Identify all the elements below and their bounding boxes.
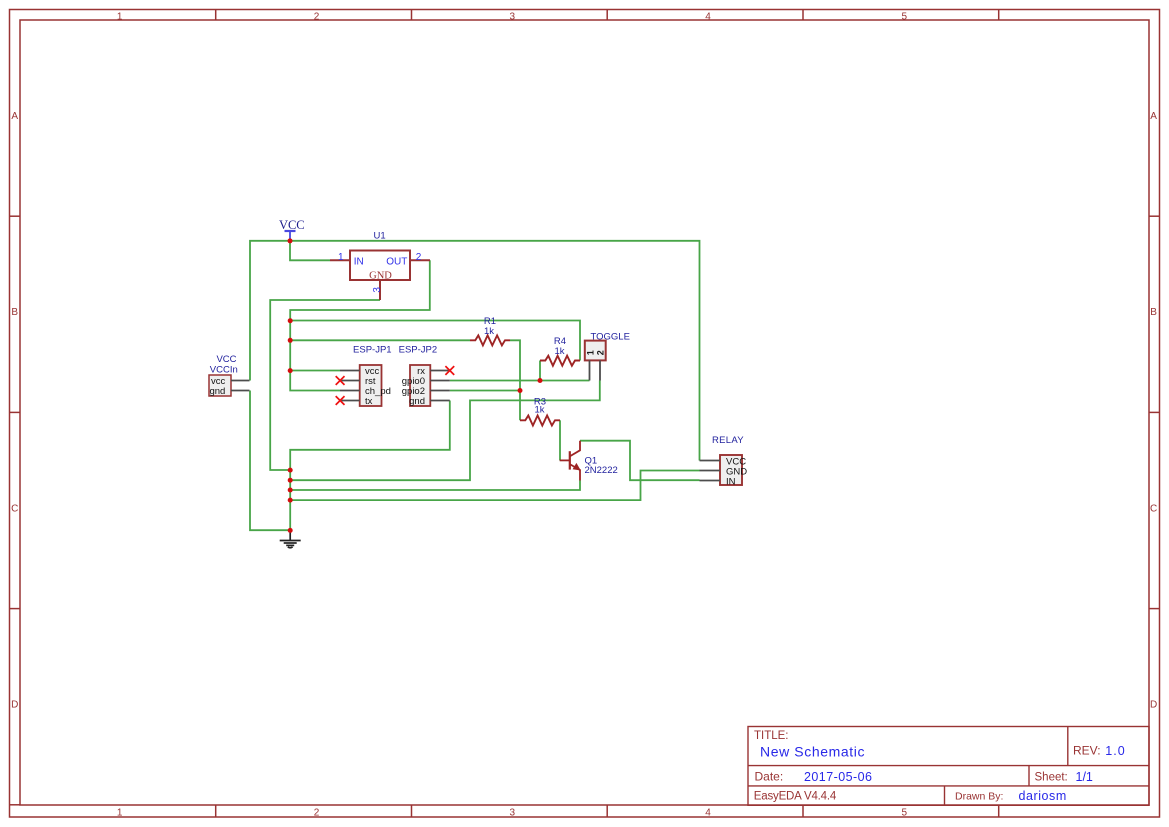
svg-text:ESP-JP1: ESP-JP1 (353, 345, 392, 356)
svg-text:2: 2 (314, 808, 320, 819)
svg-text:Date:: Date: (755, 769, 784, 783)
pin 2 U1 (410, 259, 430, 261)
wire rail to R4 right (wire A) (290, 321, 580, 361)
pin IN RELAY (700, 480, 721, 482)
connector ESP-JP2 (399, 345, 450, 408)
frame row labels left (11, 111, 18, 711)
svg-text:3: 3 (510, 12, 516, 23)
R1 body (470, 335, 510, 345)
node gnd bus 4 (288, 498, 293, 503)
svg-text:1: 1 (117, 808, 123, 819)
svg-text:1k: 1k (484, 326, 494, 337)
svg-text:3: 3 (372, 287, 383, 293)
connector TOGGLE (585, 332, 630, 381)
svg-text:2N2222: 2N2222 (585, 465, 618, 476)
U1 body (350, 251, 410, 281)
wire VCC to U1 IN (290, 241, 330, 260)
pin vcc ESP-JP1 (340, 370, 360, 372)
svg-text:RELAY: RELAY (712, 435, 744, 446)
node rail-vcc row (288, 368, 293, 373)
svg-text:1: 1 (117, 12, 123, 23)
wire Q1 collector to RELAY IN (580, 441, 700, 481)
svg-text:5: 5 (902, 808, 908, 819)
TOGGLE body (585, 341, 606, 361)
no-connect X rx (445, 366, 454, 375)
wire rail to ESP-JP1 vcc (290, 370, 340, 372)
svg-text:1: 1 (338, 252, 344, 263)
Q1 base lead (560, 459, 570, 461)
VCCIn body (209, 375, 231, 396)
pin rst ESP-JP1 (340, 380, 360, 382)
pin tx ESP-JP1 (340, 400, 360, 402)
connector RELAY (700, 435, 748, 488)
VCC flag stem (289, 231, 291, 241)
svg-text:2: 2 (314, 12, 320, 23)
pin gpio2 ESP-JP2 (430, 390, 450, 392)
svg-text:ESP-JP2: ESP-JP2 (399, 345, 438, 356)
frame column labels top (117, 12, 908, 23)
pin rx ESP-JP2 (430, 370, 450, 372)
svg-text:IN: IN (354, 257, 364, 268)
title block (748, 727, 1149, 806)
svg-text:1/1: 1/1 (1076, 770, 1093, 784)
pin GND RELAY (700, 470, 721, 472)
Q1 emitter lead (570, 464, 581, 481)
pin gpio0 ESP-JP2 (430, 380, 450, 382)
Q1 collector lead (570, 441, 581, 457)
wire RELAY GND to ground bus (290, 471, 699, 501)
pin gnd VCCIn (231, 390, 250, 392)
svg-text:gnd: gnd (409, 396, 425, 407)
svg-text:tx: tx (365, 396, 373, 407)
VCC flag bar (285, 230, 296, 232)
pin gnd ESP-JP2 (430, 400, 450, 402)
R4 body (540, 356, 580, 366)
pin 1 TOGGLE (589, 360, 591, 380)
node rail-wireB (288, 338, 293, 343)
svg-text:dariosm: dariosm (1019, 789, 1067, 803)
resistor R4 (540, 336, 580, 366)
node gnd bus 2 (288, 478, 293, 483)
svg-text:IN: IN (726, 476, 736, 487)
svg-text:A: A (11, 111, 18, 122)
svg-text:TOGGLE: TOGGLE (591, 332, 630, 343)
wire R1 right down to R3 left (510, 340, 520, 420)
svg-text:OUT: OUT (386, 257, 407, 268)
svg-text:gnd: gnd (209, 386, 225, 397)
Q1 emitter arrow (573, 463, 581, 471)
ground (280, 530, 301, 547)
R3 body (520, 416, 560, 426)
ESP-JP2 body (410, 365, 430, 406)
svg-text:B: B (11, 307, 18, 318)
wire ground bus vertical (289, 470, 291, 530)
no-connect X rst (336, 376, 345, 385)
node R4-gpio0 (538, 378, 543, 383)
ESP-JP1 body (360, 365, 382, 406)
svg-text:D: D (11, 700, 18, 711)
svg-text:3: 3 (510, 808, 516, 819)
frame column labels bottom (117, 808, 908, 819)
svg-text:C: C (1150, 503, 1157, 514)
node R1right-gpio2 (518, 388, 523, 393)
wire R3 right down to Q1 base (559, 420, 561, 460)
svg-text:A: A (1150, 111, 1157, 122)
resistor R1 (470, 316, 510, 345)
svg-text:1k: 1k (534, 405, 544, 416)
pin ch_pd ESP-JP1 (340, 390, 360, 392)
pin 3 U1 (379, 280, 381, 300)
wire VCCIn gnd down to ground (250, 391, 290, 531)
RELAY body (720, 455, 742, 485)
svg-text:TITLE:: TITLE: (754, 730, 789, 742)
pin vcc VCCIn (231, 380, 250, 382)
node gnd bus bottom (288, 528, 293, 533)
wire ESP-JP2 gnd to ground bus (290, 401, 450, 471)
svg-text:1: 1 (585, 350, 595, 355)
svg-text:GND: GND (369, 271, 392, 282)
Q1 base bar (569, 451, 571, 469)
svg-text:Sheet:: Sheet: (1035, 771, 1068, 783)
node gnd bus top (288, 468, 293, 473)
regulator U1 (330, 231, 430, 301)
wire U1 GND pin to ground bus (270, 300, 380, 470)
wire gpio2 row (450, 390, 520, 392)
title block texts (754, 730, 1101, 802)
wire Q1 emitter to ground bus (290, 481, 580, 491)
svg-text:B: B (1150, 307, 1157, 318)
no-connect X tx (336, 396, 345, 405)
svg-text:2: 2 (416, 252, 422, 263)
wire TOGGLE pin2 to ground bus (290, 381, 600, 481)
wire VCC net: left drop / top run / right drop to RELAY VCC (250, 241, 700, 461)
connector VCCIn (209, 354, 250, 397)
svg-text:Drawn By:: Drawn By: (955, 791, 1003, 803)
wire gpio0 row to TOGGLE pin1 (450, 380, 590, 382)
wire R4 left down to gpio0 row (539, 361, 541, 381)
svg-text:New Schematic: New Schematic (760, 744, 865, 760)
svg-text:VCCIn: VCCIn (210, 364, 238, 375)
pin VCC RELAY (700, 460, 721, 462)
svg-text:1.0: 1.0 (1105, 744, 1126, 758)
node rail-wireA (288, 318, 293, 323)
svg-text:2017-05-06: 2017-05-06 (804, 770, 872, 784)
svg-text:1k: 1k (554, 346, 564, 357)
pin 2 TOGGLE (599, 360, 601, 380)
svg-text:U1: U1 (374, 231, 386, 242)
svg-text:5: 5 (902, 12, 908, 23)
connector ESP-JP1 (340, 345, 392, 408)
pin 1 U1 (330, 259, 350, 261)
svg-text:C: C (11, 503, 18, 514)
power flag VCC (279, 218, 305, 241)
svg-text:2: 2 (596, 350, 606, 355)
svg-text:4: 4 (705, 12, 711, 23)
transistor Q1 (560, 441, 618, 481)
wire rail to R1 left (wire B) (290, 339, 470, 341)
svg-text:D: D (1150, 700, 1157, 711)
resistor R3 (520, 397, 560, 426)
node gnd bus 3 (288, 488, 293, 493)
frame row labels right (1150, 111, 1157, 711)
svg-text:4: 4 (705, 808, 711, 819)
node VCC junction (288, 238, 293, 243)
svg-text:REV:: REV: (1073, 744, 1101, 758)
wire U1 OUT down-left to rail (290, 260, 430, 390)
svg-text:EasyEDA V4.4.4: EasyEDA V4.4.4 (754, 791, 837, 803)
